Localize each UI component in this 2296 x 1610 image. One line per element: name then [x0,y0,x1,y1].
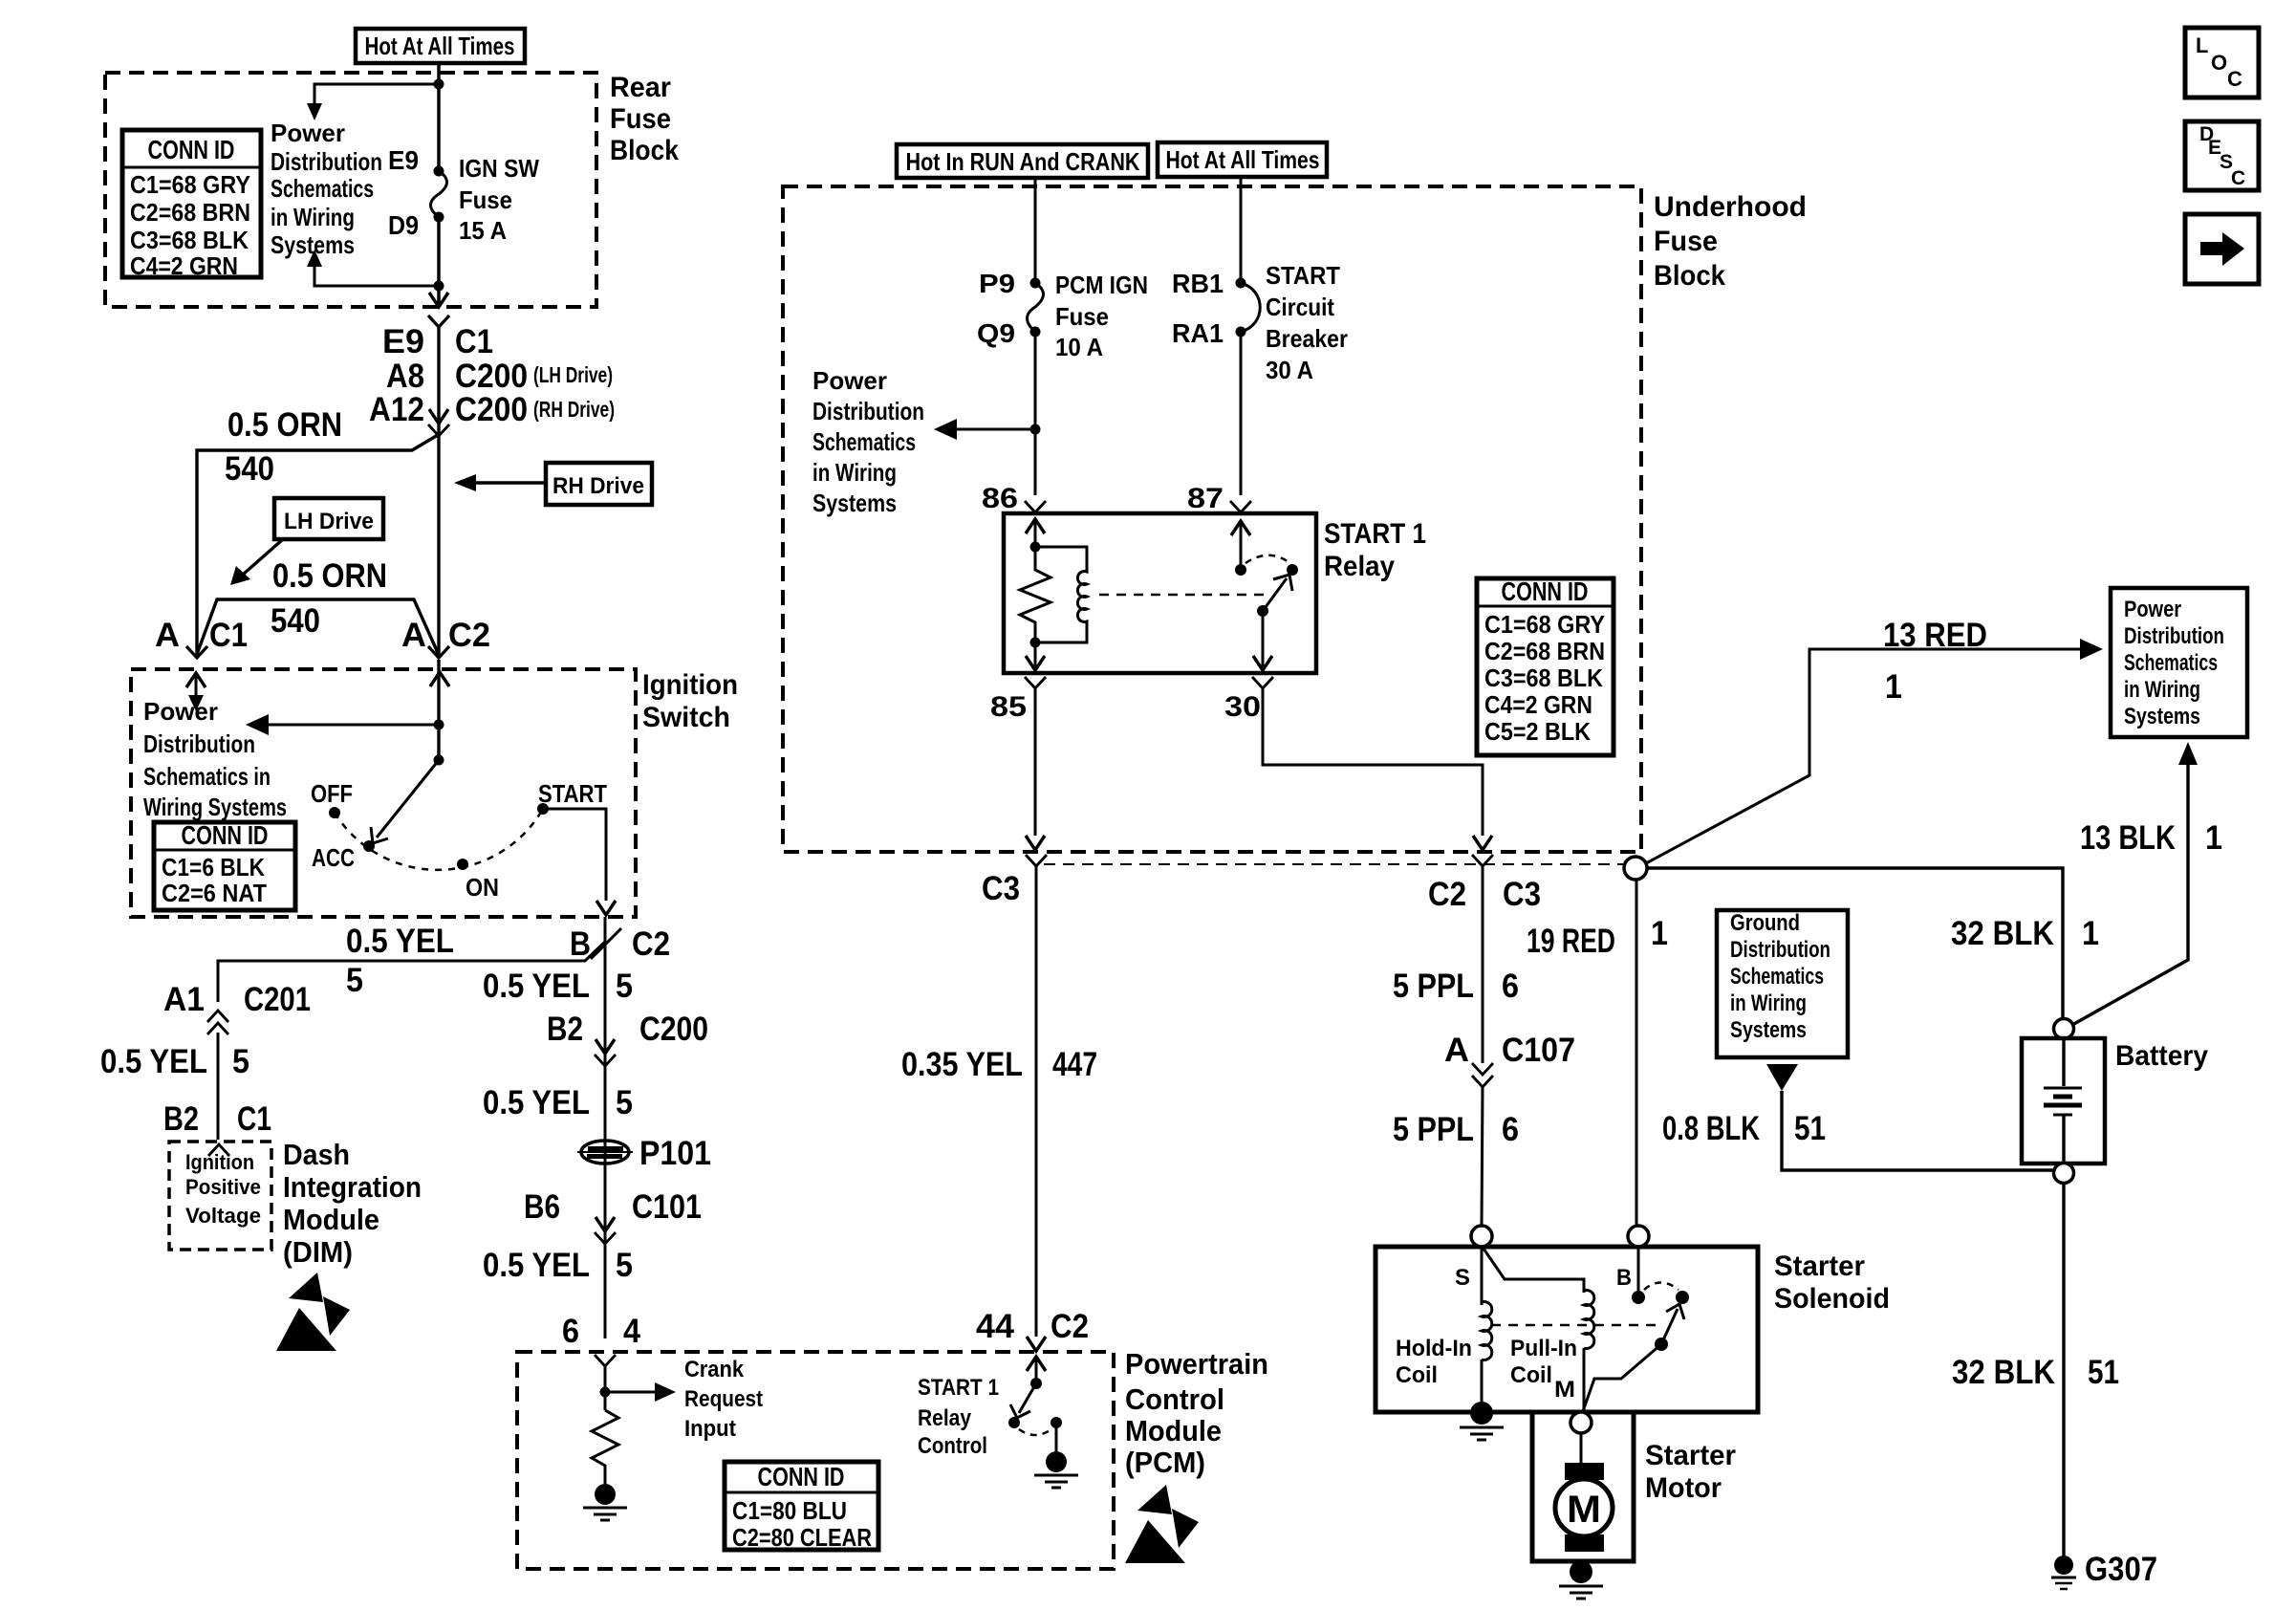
svg-text:B2: B2 [547,1011,583,1048]
wire label 0.35 YEL [901,1046,1023,1083]
svg-text:(LH Drive): (LH Drive) [533,362,613,387]
PCM boundary (dashed) [517,1352,1114,1569]
svg-text:in Wiring: in Wiring [812,458,897,487]
svg-text:Distribution: Distribution [143,729,255,758]
DESC reference icon [2185,121,2259,190]
connector C3 label [982,870,1020,907]
svg-text:RB1: RB1 [1172,269,1224,298]
svg-text:1: 1 [1651,915,1668,952]
connector chevron pin 87 [1230,501,1251,512]
svg-text:6: 6 [1502,968,1519,1005]
pin 85 label [990,691,1027,723]
RH Drive callout [454,463,652,505]
wire labels 32 BLK / 1 [1951,915,2099,952]
connector labels A8 / C200 (LH Drive) [386,358,613,395]
power feed tag "Hot In RUN And CRANK" [897,144,1148,178]
CONN ID table (rear fuse block) [122,130,261,280]
svg-text:0.5 YEL: 0.5 YEL [483,1247,590,1284]
circuit number 540 (lower) [271,602,320,640]
svg-text:C3: C3 [1503,876,1541,913]
junction ring (splice) [1624,857,1647,880]
wire label 0.5 YEL (above P101) [483,1084,633,1121]
svg-text:IGN SW: IGN SW [459,154,539,183]
pin 30 label [1224,691,1261,723]
relay movable arm [1263,575,1292,611]
breaker terminal RB1 [1172,269,1224,298]
svg-text:87: 87 [1187,483,1224,514]
wire 0.8 BLK [1782,1091,2053,1170]
connector slash B/C2 [591,928,621,959]
relay output wire [1253,611,1272,670]
wire branch to power distribution (lower) [307,250,439,286]
Ignition Switch label [642,669,738,733]
CONN ID table (ignition switch) [154,820,295,910]
svg-text:Control: Control [1125,1382,1224,1416]
Power Distribution reference box (right) [2111,588,2247,737]
svg-text:6: 6 [562,1313,579,1350]
junction node [1030,424,1041,435]
PCM driver ground [1034,1451,1078,1488]
wire 0.5 ORN (lower branch) [196,599,439,657]
svg-text:540: 540 [225,450,274,488]
Underhood Fuse Block boundary (dashed) [783,186,1641,852]
arrow to power distribution note (underhood) [934,419,1035,440]
svg-text:Ignition: Ignition [185,1150,254,1174]
svg-text:Breaker: Breaker [1266,324,1348,353]
svg-text:Crank: Crank [684,1357,745,1382]
connector C1 chevron [428,315,449,327]
svg-text:C5=2 BLK: C5=2 BLK [1484,717,1591,746]
svg-text:C1: C1 [209,617,248,654]
Rear Fuse Block label [610,72,679,166]
starter motor [1555,1463,1613,1552]
svg-text:C107: C107 [1502,1032,1575,1069]
svg-text:D9: D9 [388,210,419,240]
svg-text:C2=68 BRN: C2=68 BRN [1484,637,1605,665]
svg-text:540: 540 [271,602,320,640]
svg-text:Solenoid: Solenoid [1774,1283,1890,1315]
pull-in coil feed [1484,1249,1584,1293]
wire label 0.5 ORN (upper) [227,406,342,444]
svg-text:E9: E9 [388,145,419,175]
svg-text:START: START [1266,261,1340,290]
CONN ID table (PCM) [725,1462,878,1552]
svg-text:L: L [2196,33,2208,57]
solenoid M terminal [1570,1412,1592,1433]
svg-text:Systems: Systems [1730,1017,1807,1043]
wire: Hot At All Times to breaker [1240,177,1243,283]
svg-text:CONN ID: CONN ID [758,1462,845,1491]
svg-text:Starter: Starter [1645,1440,1736,1471]
svg-text:C2: C2 [1428,876,1466,913]
CONN ID table (underhood) [1477,577,1614,755]
svg-text:C200: C200 [455,391,528,428]
svg-text:ON: ON [466,873,499,902]
Starter Motor label [1645,1440,1736,1504]
DIM hint text [185,1150,261,1228]
connector chevron C2/C3 [1472,855,1493,866]
power distribution note (underhood) [812,366,924,517]
svg-text:ACC: ACC [312,843,355,872]
LH Drive callout [230,498,383,585]
ignition START output wire [543,809,616,915]
svg-text:0.8 BLK: 0.8 BLK [1662,1110,1760,1147]
relay contact throw arc (dashed) [1245,555,1289,563]
connector chevron 6/4 [595,1355,616,1366]
fuse terminal P9 [979,269,1015,298]
hold-in coil [1482,1247,1492,1402]
svg-text:Power: Power [271,119,345,147]
svg-text:5: 5 [616,1084,633,1121]
ground G307 [2051,1181,2076,1589]
connector labels A12 / C200 (RH Drive) [369,391,615,428]
svg-text:Fuse: Fuse [459,185,512,214]
relay NO contact [1287,564,1298,576]
svg-text:C101: C101 [632,1188,702,1226]
PCM label [1125,1347,1268,1479]
svg-text:C200: C200 [455,358,528,395]
svg-text:C: C [2231,167,2245,189]
svg-text:0.5 ORN: 0.5 ORN [272,557,387,595]
ground reference arrow [1766,1064,1798,1091]
connector chevron B2/C1 [208,1144,229,1156]
Starter Solenoid label [1774,1251,1890,1315]
contact ACC [312,840,375,872]
PCM driver switch input [1027,1357,1046,1383]
svg-text:O: O [2211,51,2227,75]
breaker terminal RA1 [1172,318,1224,348]
PCM driver contact (left) [1008,1417,1020,1428]
connector labels C2 / C3 [1428,876,1541,913]
Ignition Switch boundary (dashed) [131,669,636,917]
svg-text:0.5 YEL: 0.5 YEL [483,968,590,1005]
svg-text:(PCM): (PCM) [1125,1446,1205,1479]
arrow to power distribution note [246,714,439,735]
connector chevron A/C2 [428,646,449,658]
relay coil output arrow [1026,642,1045,670]
svg-text:0.35 YEL: 0.35 YEL [901,1046,1023,1083]
solenoid arm to M link [1583,1344,1661,1411]
Ground Distribution reference box [1717,910,1848,1057]
svg-text:Wiring Systems: Wiring Systems [143,793,287,821]
svg-text:Rear: Rear [610,72,671,103]
wire 5 PPL to C107 [1482,866,1484,1063]
wire labels 32 BLK / 51 [1952,1354,2119,1391]
fuse name label [1055,271,1148,361]
wire labels 0.8 BLK / 51 [1662,1110,1826,1147]
svg-text:15 A: 15 A [459,216,507,245]
svg-text:C2: C2 [1051,1308,1089,1345]
svg-text:1: 1 [2205,819,2222,857]
connector arrow+chevron B6/C101 [595,1217,616,1244]
svg-text:0.5 ORN: 0.5 ORN [227,406,342,444]
svg-text:Pull-In: Pull-In [1510,1336,1577,1361]
wire: rear fuse block to ignition switch [437,327,440,657]
wire label 0.5 YEL (DIM) [100,1043,207,1080]
wire: fuse output [437,217,441,304]
connector labels A / C107 [1444,1032,1575,1069]
grommet P101 [577,1141,633,1164]
svg-text:85: 85 [990,691,1027,723]
fuse PCM IGN (symbol) [1028,278,1044,337]
circuit number 447 [1052,1046,1097,1083]
svg-text:Ground: Ground [1730,910,1800,936]
svg-text:G307: G307 [2085,1551,2157,1588]
svg-text:Fuse: Fuse [1055,302,1109,331]
svg-text:Power: Power [143,697,218,726]
battery [2022,1038,2105,1164]
svg-text:5: 5 [346,962,363,999]
connector labels A / C1 [155,617,248,654]
svg-text:B2: B2 [163,1100,199,1138]
relay resistor [1020,547,1051,642]
svg-text:Hot At All Times: Hot At All Times [365,32,515,60]
power feed tag "Hot At All Times" (rear) [356,29,525,63]
connector chevron pin 85 [1025,677,1046,688]
ground label G307 [2085,1551,2157,1588]
svg-text:C200: C200 [639,1011,708,1048]
svg-text:4: 4 [623,1313,640,1350]
svg-text:Schematics: Schematics [2124,650,2218,676]
crank request branch [600,1382,677,1402]
circuit number 5 (DIM) [232,1043,249,1080]
M terminal label [1554,1377,1575,1403]
svg-text:C1=6 BLK: C1=6 BLK [162,853,265,881]
svg-text:Battery: Battery [2115,1040,2208,1072]
pull-in coil [1584,1291,1594,1413]
svg-text:C3=68 BLK: C3=68 BLK [130,226,249,254]
wire 0.35 YEL to PCM [1027,866,1046,1351]
connector chevrons A/C107 [1472,1063,1493,1087]
wire label 0.5 YEL (branch) [346,923,454,960]
svg-text:RA1: RA1 [1172,318,1224,348]
wire: ignition switch to PCM (0.5 YEL) [604,917,607,1338]
relay coil junction (bottom) [1030,638,1041,648]
power distribution note (ignition switch) [143,697,287,821]
svg-text:19 RED: 19 RED [1527,923,1615,960]
svg-text:32 BLK: 32 BLK [1951,915,2054,952]
PCM driver node [1030,1378,1042,1389]
circuit number 540 (upper) [225,450,274,488]
svg-text:CONN ID: CONN ID [1502,577,1589,606]
svg-text:Distribution: Distribution [2124,623,2224,649]
circuit breaker START (symbol) [1236,278,1261,337]
svg-text:A1: A1 [163,981,205,1018]
fuse IGN SW (symbol) [431,166,447,223]
svg-text:6: 6 [1502,1111,1519,1148]
connector labels A1 / C201 [163,981,311,1018]
svg-text:Relay: Relay [918,1405,972,1431]
svg-text:32 BLK: 32 BLK [1952,1354,2055,1391]
Starter Solenoid box [1375,1247,1758,1412]
svg-text:1: 1 [1885,668,1902,706]
svg-text:5: 5 [616,1247,633,1284]
wire: Hot In RUN to PCM IGN fuse [1034,178,1037,283]
svg-text:Hot At All Times: Hot At All Times [1166,145,1320,174]
svg-text:Distribution: Distribution [271,147,382,176]
svg-text:51: 51 [2088,1354,2119,1391]
svg-text:Motor: Motor [1645,1472,1722,1504]
solenoid B contact wire [1637,1247,1640,1297]
svg-text:A12: A12 [369,391,424,428]
svg-text:START: START [538,779,607,808]
connector labels B / C2 [570,925,670,963]
svg-text:Control: Control [918,1433,987,1459]
svg-text:P9: P9 [979,269,1015,298]
svg-text:5: 5 [616,968,633,1005]
wire label 0.5 YEL (above PCM) [483,1247,633,1284]
svg-text:Module: Module [1125,1414,1222,1447]
DIM label [283,1138,422,1269]
DIM boundary (dashed) [169,1142,271,1250]
solenoid arm pivot [1655,1338,1668,1351]
PCM resistor ground [583,1484,627,1520]
connector labels A / C2 [401,617,490,654]
svg-text:Switch: Switch [642,702,730,733]
svg-text:5: 5 [232,1043,249,1080]
solenoid contact throw arc (dashed) [1644,1283,1679,1291]
svg-text:C3=68 BLK: C3=68 BLK [1484,664,1603,692]
wire: battery feed to IGN SW fuse [437,63,441,171]
svg-text:(DIM): (DIM) [283,1235,353,1269]
svg-text:LH Drive: LH Drive [284,509,374,534]
battery positive terminal [2054,1019,2074,1039]
svg-text:Fuse: Fuse [1654,226,1718,257]
svg-text:5 PPL: 5 PPL [1393,1111,1474,1148]
svg-text:Relay: Relay [1324,551,1395,582]
svg-text:START 1: START 1 [1324,518,1426,550]
svg-text:447: 447 [1052,1046,1097,1083]
junction node [434,281,444,292]
svg-text:CONN ID: CONN ID [148,135,235,164]
svg-text:44: 44 [976,1308,1015,1345]
wire M to motor [1580,1433,1583,1465]
svg-text:Distribution: Distribution [812,397,924,425]
starter motor enclosure [1532,1412,1634,1561]
contact OFF [311,779,353,818]
svg-text:PCM IGN: PCM IGN [1055,271,1148,299]
svg-text:M: M [1554,1377,1575,1403]
wire 5 PPL to solenoid S [1482,1087,1483,1226]
wire 0.5 ORN (upper branch) [197,435,438,657]
contact ON [457,859,499,902]
svg-text:C4=2 GRN: C4=2 GRN [1484,690,1592,719]
svg-text:START 1: START 1 [918,1375,999,1401]
rotary contact arc (dashed) [335,809,543,870]
solenoid S terminal [1471,1226,1492,1247]
svg-text:Ignition: Ignition [642,669,738,701]
Battery label [2115,1040,2208,1072]
hold-in coil ground [1460,1402,1504,1440]
pin 87 label [1187,483,1224,514]
svg-text:0.5 YEL: 0.5 YEL [100,1043,207,1080]
wire branch to power distribution (upper) [307,84,439,120]
ignition switch rotor arm [371,760,439,843]
connector chevron A/C1 [186,646,207,658]
svg-text:Distribution: Distribution [1730,937,1830,963]
svg-text:CONN ID: CONN ID [182,820,269,850]
wire: fuse to relay pin 86 [1034,332,1037,495]
svg-text:Schematics: Schematics [271,174,374,203]
B terminal label [1616,1265,1632,1291]
svg-text:Module: Module [283,1203,379,1236]
connector exit arrow (rear fuse block) [429,293,448,307]
svg-text:Positive: Positive [185,1175,261,1199]
svg-text:(RH Drive): (RH Drive) [533,397,615,422]
Crank Request Input label [684,1357,763,1442]
svg-text:C2: C2 [448,617,490,654]
wire labels 13 BLK / 1 [2080,819,2222,857]
START 1 Relay Control label [918,1375,999,1459]
relay coil input arrow [1026,519,1045,547]
connector labels 44 / C2 [976,1308,1089,1345]
svg-text:Hold-In: Hold-In [1396,1336,1472,1361]
svg-text:C1: C1 [455,323,493,360]
circuit number 5 (branch) [346,962,363,999]
relay switch input [1231,521,1250,570]
wire labels 13 RED / 1 [1883,617,1987,706]
svg-text:Q9: Q9 [977,318,1015,348]
svg-text:RH Drive: RH Drive [552,473,644,499]
svg-text:Block: Block [610,135,679,166]
wire relay 30 to C2 exit [1263,688,1492,850]
svg-text:M: M [1567,1489,1601,1531]
power distribution note (rear fuse block) [271,119,382,259]
ESD symbol (DIM) [276,1273,350,1351]
svg-text:C: C [2227,67,2242,91]
forward arrow icon [2185,214,2259,284]
svg-text:Fuse: Fuse [610,103,671,135]
svg-text:0.5 YEL: 0.5 YEL [346,923,454,960]
wire branch 0.5 YEL to DIM [218,942,605,1002]
svg-text:B: B [1616,1265,1632,1291]
junction node [434,79,444,90]
connector chevrons A1/C201 [207,1011,228,1034]
svg-text:51: 51 [1794,1110,1826,1147]
starter motor ground [1559,1560,1603,1599]
svg-text:30 A: 30 A [1266,356,1313,384]
svg-text:in Wiring: in Wiring [271,203,355,231]
wire labels 5 PPL / 6 (upper) [1393,968,1519,1005]
svg-text:A: A [401,617,426,654]
svg-text:in Wiring: in Wiring [2124,677,2200,703]
Pull-In Coil label [1510,1336,1577,1388]
Underhood Fuse Block label [1654,191,1807,292]
solenoid fixed contact [1632,1291,1645,1304]
wire 19 RED to solenoid B [1635,880,1638,1226]
svg-text:C1=68 GRY: C1=68 GRY [1484,610,1605,639]
svg-text:Power: Power [812,366,887,395]
wire label 0.5 ORN (lower) [272,557,387,595]
svg-text:C201: C201 [244,981,311,1018]
svg-text:Circuit: Circuit [1266,293,1334,321]
wire 13 RED [1646,639,2103,863]
svg-text:C1=80 BLU: C1=80 BLU [732,1496,847,1525]
Rear Fuse Block boundary (dashed) [105,73,596,307]
junction node [434,720,444,730]
wire labels 5 PPL / 6 (lower) [1393,1111,1519,1148]
relay START 1 box [1004,513,1316,673]
svg-text:Input: Input [684,1416,736,1442]
power feed tag "Hot At All Times" (underhood) [1158,142,1327,177]
fuse terminal E9 [388,145,419,175]
svg-text:Schematics: Schematics [1730,964,1824,990]
relay mechanical link (dashed) [1099,594,1264,597]
svg-text:C2=68 BRN: C2=68 BRN [130,198,250,227]
wire labels 19 RED / 1 [1527,915,1668,960]
svg-text:C4=2 GRN: C4=2 GRN [130,251,238,280]
wire: C201 to DIM [217,1033,220,1140]
